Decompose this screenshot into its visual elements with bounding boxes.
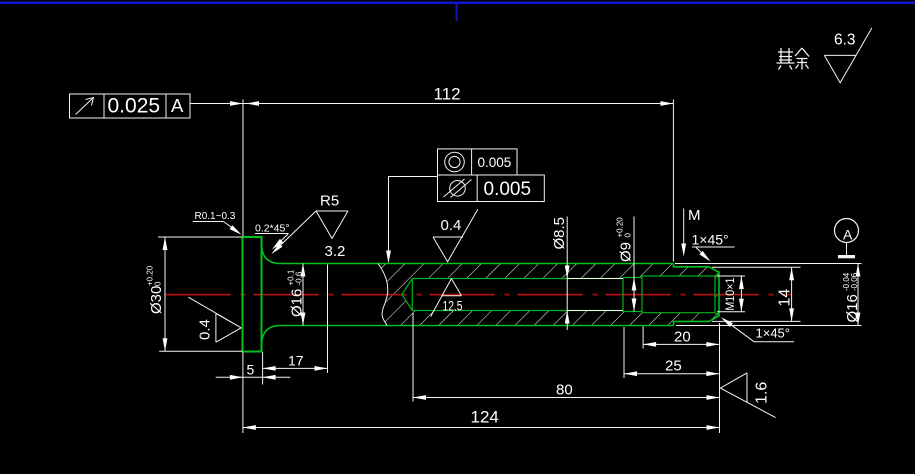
svg-text:0.025: 0.025 [108, 95, 161, 118]
dia8.5 dim line [566, 217, 568, 331]
bore vertical at drill start [411, 279, 413, 311]
roughness 0.4 top symbol [433, 209, 478, 262]
flange head [243, 237, 262, 352]
M10 ext lines [717, 275, 745, 277]
svg-text:25: 25 [665, 358, 682, 375]
20 dim line [643, 343, 719, 345]
svg-text:0: 0 [624, 233, 633, 238]
FCF runout 0.025 A [70, 94, 191, 118]
thread left vertical [641, 276, 643, 313]
svg-text:1×45°: 1×45° [692, 232, 729, 248]
14 dim line [791, 267, 793, 321]
svg-text:0.2*45°: 0.2*45° [255, 223, 290, 235]
dia16 left dim line [302, 264, 304, 326]
14 bottom ext [712, 320, 801, 322]
right master extension [719, 323, 721, 433]
svg-text:6.3: 6.3 [834, 32, 856, 49]
shaft bottom line [281, 325, 674, 327]
14 top ext [712, 266, 801, 268]
dia16 right bottom ext [676, 325, 862, 327]
red centerline [166, 294, 792, 296]
25 ext left [623, 327, 625, 378]
FCF cylindricity 0.005 [438, 175, 545, 202]
roughness 1.6 right symbol (rotated) [720, 373, 775, 418]
svg-text:-0.6: -0.6 [295, 271, 304, 285]
dia30 top extension [158, 236, 242, 238]
ext flange left below [242, 352, 244, 433]
section hatching [378, 264, 719, 326]
svg-text:14: 14 [777, 289, 794, 307]
svg-text:0: 0 [154, 281, 163, 286]
datum A symbol [835, 219, 859, 243]
M10 dim line [740, 276, 742, 312]
right section profile [674, 264, 720, 326]
toolbar blue tick [456, 4, 458, 21]
svg-text:12.5: 12.5 [443, 299, 463, 314]
svg-text:Ø8.5: Ø8.5 [551, 217, 568, 250]
112 right extension [672, 100, 674, 262]
svg-text:17: 17 [288, 353, 304, 369]
20 ext left [642, 327, 644, 349]
svg-text:M10×1: M10×1 [723, 277, 737, 310]
124 dim line [243, 427, 720, 429]
toolbar blue line [0, 2, 915, 4]
112 left extension [242, 100, 244, 237]
svg-text:R5: R5 [320, 193, 339, 210]
FCF2 leader [389, 177, 438, 253]
bore top line [412, 278, 623, 280]
shaft top line [281, 263, 674, 265]
bore bottom line [412, 310, 623, 312]
svg-text:A: A [171, 95, 184, 116]
M leader [683, 209, 685, 246]
112 dim line with leader from FCF [190, 103, 673, 105]
fillet bottom [262, 326, 281, 344]
svg-text:112: 112 [434, 85, 461, 104]
svg-text:1.6: 1.6 [754, 382, 771, 404]
svg-text:1×45°: 1×45° [756, 326, 790, 341]
svg-text:0.005: 0.005 [478, 155, 512, 170]
drill cone [402, 279, 412, 311]
svg-text:3.2: 3.2 [325, 243, 346, 260]
bore step at x623 [623, 278, 642, 312]
roughness 3.2 symbol [316, 211, 348, 238]
dia30 dim line [164, 237, 166, 351]
surface roughness 6.3 top right [824, 28, 872, 83]
dia8.5 ext overlays [567, 278, 623, 280]
svg-text:Ø9: Ø9 [618, 242, 635, 262]
svg-text:Ø16: Ø16 [289, 289, 306, 317]
roughness 12.5 symbol (flipped) [431, 279, 462, 317]
roughness 0.4 left symbol (rotated) [188, 297, 241, 342]
svg-text:80: 80 [556, 382, 573, 399]
17 dim line [263, 367, 328, 369]
dia16 right top ext [675, 263, 862, 265]
fillet top [262, 246, 281, 264]
dia9 text rotated [616, 217, 635, 262]
ext 17 right [327, 265, 329, 374]
bore step vertical x623 [622, 278, 624, 312]
svg-text:-0.06: -0.06 [850, 272, 859, 291]
svg-text:Ø16: Ø16 [844, 294, 861, 322]
dia16-0.04 dim line [857, 264, 859, 326]
dia16-0.04-0.06 text rotated [842, 272, 861, 322]
80 dim line [413, 397, 720, 399]
green part outline [243, 237, 720, 352]
arrows [163, 101, 861, 430]
svg-text:0.4: 0.4 [197, 319, 214, 340]
svg-text:20: 20 [674, 329, 691, 346]
svg-text:0.005: 0.005 [484, 179, 532, 200]
thread section box [642, 276, 715, 313]
dia9 dim line [633, 217, 635, 312]
svg-text:124: 124 [471, 408, 499, 427]
svg-text:M: M [688, 207, 701, 224]
thread entry chamfer lines [715, 273, 719, 316]
dia30 dim text rotated [146, 265, 166, 314]
5 dim line [216, 376, 291, 378]
svg-text:0.4: 0.4 [441, 217, 462, 234]
svg-text:R0.1~0.3: R0.1~0.3 [195, 211, 236, 222]
break line [378, 264, 388, 326]
ext flange right below [262, 352, 264, 385]
dia30 bottom extension [159, 350, 242, 352]
svg-text:5: 5 [247, 362, 255, 378]
80 ext left [412, 313, 414, 402]
svg-text:Ø30: Ø30 [148, 286, 165, 314]
chinese text 其余 as strokes [777, 48, 810, 70]
FCF concentricity 0.005 [438, 149, 518, 175]
dia16 +0.1-0.6 dim text rotated [287, 269, 306, 317]
svg-text:A: A [843, 227, 853, 243]
25 dim line [624, 373, 719, 375]
white dimension/annotation lines [158, 100, 862, 434]
